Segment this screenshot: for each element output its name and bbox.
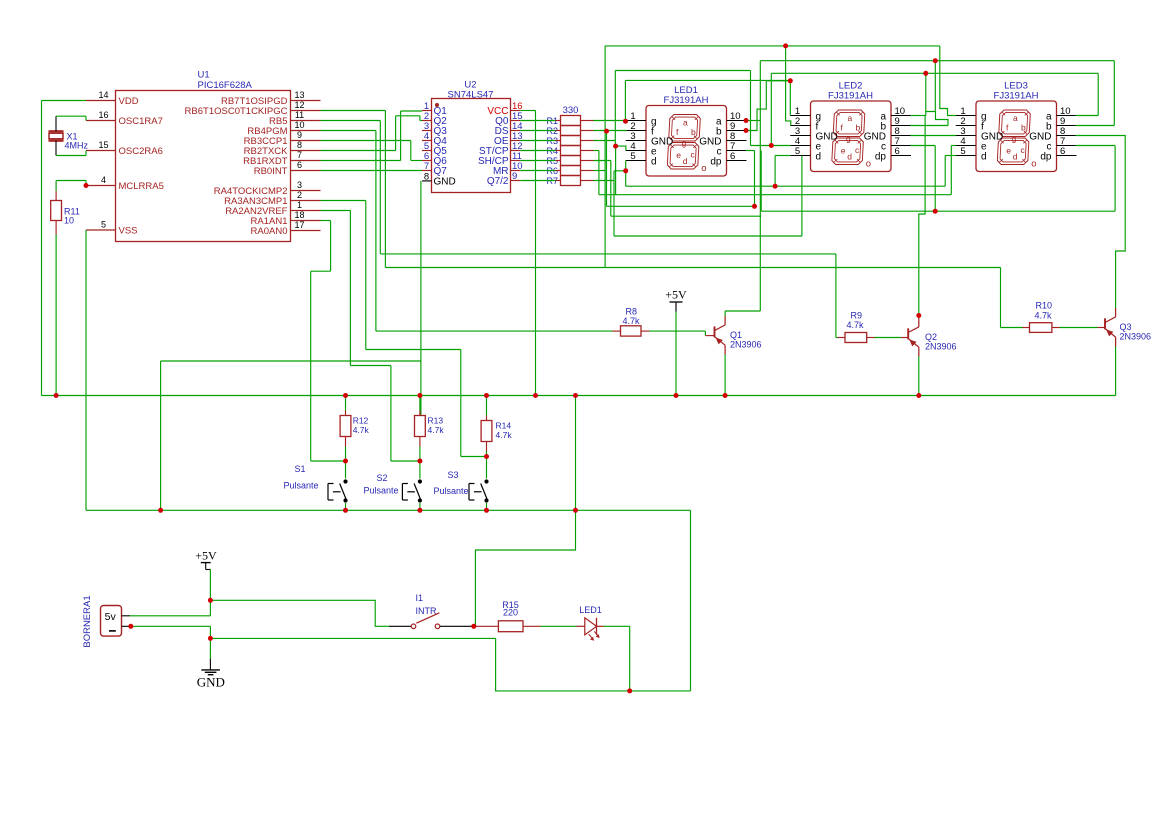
wire R7 row [594,180,615,182]
wire LED3 GND to Q3 [1076,136,1126,309]
junction [208,598,213,603]
wire R5 to h5 [594,160,611,162]
junction R12 rail [345,437,347,447]
U1 pin 17 RA0AN0 [291,230,321,232]
U2 pin 11 SH/CP [511,160,521,162]
svg-text:4.7k: 4.7k [496,430,513,440]
svg-text:6: 6 [730,151,735,162]
svg-text:11: 11 [295,110,304,120]
svg-text:g: g [846,133,851,143]
svg-text:PIC16F628A: PIC16F628A [198,80,253,91]
LED2 pin 1 g [790,115,810,117]
svg-text:R12: R12 [353,416,369,426]
junction [744,118,749,123]
U2 pin 5 Q5 [422,150,432,152]
svg-text:FJ3191AH: FJ3191AH [994,91,1039,102]
display LED1 FJ3191AH [646,106,727,177]
wire run h7 [614,235,802,237]
svg-text:5v: 5v [105,611,117,623]
IC U1 PIC16F628A [116,91,291,242]
wire S3 node to contact [486,457,488,479]
wire A right to LED3 g [940,46,956,116]
svg-text:GND: GND [197,675,225,690]
svg-text:2N3906: 2N3906 [925,341,957,351]
svg-text:Q3: Q3 [1120,322,1132,332]
svg-text:FJ3191AH: FJ3191AH [828,91,873,102]
wire D riser LED1 g [624,80,626,120]
crystal pin bottom [55,141,57,156]
ground symbol GND [209,659,211,670]
svg-text:dp: dp [1040,152,1052,163]
U1 pin 12 RB6T1OSC0T1CKIPGC [291,110,321,112]
svg-text:Q2: Q2 [925,332,937,342]
svg-text:330: 330 [563,105,579,116]
wire B riser LED2 b [934,61,936,112]
wire R1 to LED1 g [594,120,626,122]
wire R10 wires [1001,327,1023,329]
svg-text:2: 2 [297,190,302,200]
LED3 pin 10 a [1057,115,1077,117]
svg-text:4.7k: 4.7k [1035,311,1053,321]
svg-text:2N3906: 2N3906 [1120,331,1152,341]
wire minus to GND node [131,625,211,627]
wire RA3 to S3 [321,200,366,202]
wire RB0 to U2 Q7 [321,170,423,172]
svg-text:1: 1 [297,200,302,210]
svg-text:VSS: VSS [119,226,138,237]
wire RB6 to R10 column [321,110,386,112]
resistor R9 4.7k [845,333,867,343]
connector BORNERA1 [101,606,122,637]
svg-text:R9: R9 [851,311,863,321]
svg-text:RB0INT: RB0INT [254,166,288,177]
junction [533,393,538,398]
wire VCC down to rail1 [520,110,535,112]
wire run h5 [611,215,761,217]
U2 pin 7 Q7 [422,170,432,172]
svg-text:5: 5 [630,151,635,162]
junction [752,204,757,209]
LED2 pin 5 d [790,155,810,157]
U1 pin 1 RA2AN2VREF [291,210,321,212]
svg-text:g: g [1012,133,1017,143]
svg-text:4.7k: 4.7k [847,320,865,330]
LED1 pin 7 c [727,150,747,152]
junction [128,624,133,629]
wire RA2 to S2 [321,210,351,212]
junction R14 rail [486,442,488,452]
wire U2 GND to rail2 [161,360,421,362]
wire run h2 [599,194,951,196]
junction [788,78,793,83]
rail2 horizontal [86,509,691,511]
svg-text:a: a [683,117,688,127]
resistor R7 [561,176,581,186]
resistor R6 [561,166,581,176]
wire R3 to bus C [594,140,616,142]
svg-text:d: d [683,156,688,166]
U2 pin 9 Q7/2 [511,180,521,182]
wire e column down [615,146,617,195]
wire RB5 to R9 column [321,120,381,122]
svg-text:U1: U1 [198,70,210,81]
U1 pin 11 RB5 [291,120,321,122]
wire LED2 d left riser [774,156,776,187]
svg-text:6: 6 [895,146,900,157]
wire R11 to rail [55,235,57,396]
resistor R12 4.7k [340,416,351,437]
junction [343,508,348,513]
junction [417,393,422,398]
junction [933,209,938,214]
wire Q1 collector up [724,311,726,316]
svg-text:INTR: INTR [416,606,437,616]
svg-text:Q1: Q1 [730,330,742,340]
svg-text:9: 9 [512,171,517,182]
resistor R13 4.7k [415,416,426,437]
svg-text:o: o [1031,158,1036,169]
svg-text:4.7k: 4.7k [353,425,370,435]
wire bus C [615,70,750,72]
svg-text:o: o [866,158,871,169]
svg-text:3: 3 [297,180,302,190]
U1 pin 13 RB7T1OSIPGD [291,100,321,102]
svg-text:R14: R14 [496,421,512,431]
U2 pin 15 Q0 [511,120,521,122]
wire B riser Q1 collector [759,61,761,311]
junction [783,43,788,48]
wire +5V to node [209,570,211,601]
svg-text:14: 14 [98,90,108,100]
junction [744,128,749,133]
svg-text:13: 13 [294,90,304,100]
U2 pin 4 Q4 [422,140,432,142]
svg-text:a: a [1013,113,1018,123]
svg-text:15: 15 [98,140,108,150]
LED2 pin 7 c [891,145,911,147]
wire E riser staircase [926,73,948,125]
svg-text:dp: dp [875,152,887,163]
junction [604,129,609,134]
wire Q2 collector riser [919,186,925,318]
U2 pin 14 DS [511,130,521,132]
svg-text:BORNERA1: BORNERA1 [82,595,93,647]
LED3 pin 4 e [956,145,976,147]
wire RB3 to U2 Q6 [321,140,411,142]
wire R15 to LED1 diode [541,625,577,627]
junction [471,624,476,629]
junction [573,393,578,398]
svg-text:e: e [676,150,681,160]
wire h2 to LED3 e [950,146,952,195]
LED3 pin 2 f [956,125,976,127]
junction [923,71,928,76]
svg-text:b: b [691,127,696,137]
wire VDD to rail1 [42,100,87,102]
U1 pin 16 OSC1RA7 [86,120,116,122]
svg-text:dp: dp [710,157,722,168]
U1 pin 14 VDD [86,100,116,102]
wire S3 to rail2 [486,503,488,510]
svg-text:Pulsante: Pulsante [364,486,399,496]
svg-text:Pulsante: Pulsante [284,481,319,491]
svg-text:10: 10 [294,120,304,130]
wire R6 row [594,170,606,172]
U1 pin 4 MCLRRA5 [86,185,116,187]
wire E riser LED3 a [1097,73,1099,115]
svg-text:6: 6 [297,160,302,170]
wire bus E [771,72,1098,74]
svg-text:e: e [1006,145,1011,155]
resistor R10 4.7k [1030,323,1052,333]
U2 pin 3 Q3 [422,130,432,132]
switch S3 Pulsante [484,479,488,483]
svg-text:RA0AN0: RA0AN0 [251,226,288,237]
svg-text:VDD: VDD [119,96,139,107]
U1 pin 3 RA4TOCKICMP2 [291,190,321,192]
svg-text:d: d [847,152,852,162]
wire h1 to LED3 d [944,156,946,187]
wire R9 to Q2 base [836,337,838,339]
wire LED2-LED3 row125 [911,125,949,127]
svg-text:OSC2RA6: OSC2RA6 [119,146,163,157]
U1 pin 15 OSC2RA6 [86,150,116,152]
junction [613,144,618,149]
rail1 horizontal [42,395,1116,397]
junction [916,393,921,398]
svg-text:Q7/2: Q7/2 [487,176,509,187]
LED2 pin 8 GND [891,135,911,137]
resistor R15 220 [498,621,523,632]
wire run h1 [626,185,946,187]
junction [54,393,59,398]
wire B riser LED3 b [1113,61,1115,126]
junction [484,393,489,398]
crystal X1 4MHz [49,130,64,132]
wire run h4 [761,210,1115,212]
svg-text:Pulsante: Pulsante [434,486,469,496]
resistor R5 [561,156,581,166]
wire Q2 emitter to rail1 [918,357,920,396]
svg-text:220: 220 [503,608,518,618]
wire U2 GND down [420,181,422,416]
wire LED3 c riser [1114,146,1116,212]
junction [484,454,489,459]
LED2 pin 6 dp [891,155,911,157]
U2 pin 2 Q2 [422,120,432,122]
LED1 pin 3 GND [626,140,646,142]
diode LED1 [585,618,597,635]
wire A riser [604,46,606,268]
wire R2 to LED1 f and h3 [594,130,627,132]
wire column x613 down [613,171,615,236]
LED3 pin 9 b [1057,125,1077,127]
U2 pin 16 VCC [511,110,521,112]
wire OSC1 loop [56,115,86,117]
resistor R4 [561,146,581,156]
svg-text:10: 10 [64,216,74,226]
wire b jog up to D [746,81,790,131]
wire MCLR to R11 [55,181,57,192]
svg-text:SN74LS47: SN74LS47 [448,90,494,101]
U1 pin 9 RB3CCP1 [291,140,321,142]
wire RA1 to S1 [321,220,331,222]
svg-text:17: 17 [294,220,304,230]
U2 pin 8 GND [422,180,432,182]
svg-text:4: 4 [101,175,106,185]
resistor R1 [561,116,581,126]
LED2 pin 10 a [891,115,911,117]
wire run h3 [607,205,755,207]
junction [769,143,774,148]
junction [933,58,938,63]
wire bus B top [760,60,1114,62]
svg-text:8: 8 [424,171,429,182]
switch S2 Pulsante [418,479,422,483]
LED2 pin 9 b [891,125,911,127]
wire LED2 a row [911,115,926,117]
U1 pin 2 RA3AN3CMP1 [291,200,321,202]
svg-text:S2: S2 [377,473,388,483]
LED3 pin 6 dp [1057,155,1077,157]
LED1 pin 2 f [626,130,646,132]
wire LED1 d column [625,161,627,187]
LED2 pin 3 GND [790,135,810,137]
transistor Q2 2N3906 [907,328,909,339]
wire VSS down to rail2 [85,230,87,510]
wire OSC2 loop [56,155,86,157]
svg-text:7: 7 [424,161,429,172]
svg-text:5: 5 [960,146,965,157]
transistor Q1 2N3906 [714,326,716,337]
IC U2 SN74LS47 [432,99,511,193]
wire LED2 c riser [934,146,936,212]
LED1 pin 5 d [626,160,646,162]
LED1 pin 9 b [727,130,747,132]
resistor R11 10 [51,201,62,221]
wire LED1 c to h3 [746,150,755,152]
wire LED1 a jog [746,120,760,122]
svg-text:4MHz: 4MHz [65,141,89,151]
svg-text:a: a [848,113,853,123]
svg-text:8: 8 [297,140,302,150]
wire R8 to Q1 base [641,330,650,332]
wire C riser left [614,71,616,147]
svg-text:b: b [856,123,861,133]
U2 pin 13 OE [511,140,521,142]
switch S1 Pulsante [343,479,347,483]
svg-text:4.7k: 4.7k [428,425,445,435]
svg-text:GND: GND [434,176,456,187]
junction [417,459,422,464]
junction [723,393,728,398]
svg-text:16: 16 [98,110,108,120]
LED1 pin 4 e [626,150,646,152]
U2 pin 6 Q6 [422,160,432,162]
wire rail2 right to I1 [575,396,577,511]
wire 5v pin to +5V [130,615,210,617]
LED1 pin 6 dp [727,160,747,162]
svg-text:LED1: LED1 [579,605,602,615]
junction [916,313,921,318]
LED3 pin 7 c [1057,145,1077,147]
junction [417,508,422,513]
wire d jog left [614,170,626,172]
svg-text:+5V: +5V [665,288,687,302]
BORNERA1 pin minus [122,625,131,627]
U2 pin 1 Q1 [422,110,432,112]
LED3 pin 1 g [956,115,976,117]
svg-text:OSC1RA7: OSC1RA7 [119,116,163,127]
svg-text:+5V: +5V [195,549,217,563]
LED2 pin 4 e [790,145,810,147]
LED1 pin 10 a [727,120,747,122]
svg-text:12: 12 [294,100,304,110]
junction [158,508,163,513]
transistor Q3 2N3906 [1104,318,1106,329]
wire Q1 emitter to rail1 [724,355,726,396]
junction [208,636,213,641]
wire S2 node to contact [419,461,421,479]
crystal pin top [55,116,57,131]
U1 pin 18 RA1AN1 [291,220,321,222]
wire LED2-LED3 row135 [911,135,957,137]
wire RB4 to R8 [321,130,376,132]
wire C riser right to LED2 e [750,71,752,146]
wire h7 riser [801,156,803,237]
svg-text:I1: I1 [416,593,424,603]
svg-text:18: 18 [294,210,304,220]
U2 pin 12 ST/CP [511,150,521,152]
wire e jog to LED1 pin4 [616,146,626,150]
svg-text:4.7k: 4.7k [623,316,641,326]
U1 pin 8 RB2TXCK [291,150,321,152]
junction [627,688,632,693]
svg-text:9: 9 [297,130,302,140]
svg-text:2N3906: 2N3906 [730,340,762,350]
wire A riser to LED2 f [786,46,791,126]
junction [623,119,628,124]
svg-text:R8: R8 [626,307,638,317]
svg-text:R10: R10 [1036,301,1053,311]
junction [343,393,348,398]
LED3 pin 3 GND [956,135,976,137]
svg-text:Q7: Q7 [434,166,448,177]
svg-text:e: e [841,145,846,155]
junction [573,508,578,513]
wire gnd stem [209,638,211,659]
svg-text:MCLRRA5: MCLRRA5 [119,181,164,192]
wire column x925 upper [924,116,926,187]
wire D riser LED2 g [789,80,791,115]
svg-text:b: b [1021,123,1026,133]
svg-text:d: d [816,152,822,163]
U1 pin 10 RB4PGM [291,130,321,132]
junction [343,459,348,464]
svg-text:FJ3191AH: FJ3191AH [664,95,709,106]
resistor R8 4.7k [621,326,642,336]
wire rail2 end down to bottom [690,510,692,691]
resistor R14 4.7k [481,421,492,442]
wire S1 node to contact [345,461,347,479]
U1 pin 5 VSS [86,229,116,231]
resistor R2 [561,126,581,136]
wire S2 to rail2 [419,503,421,510]
svg-text:R13: R13 [428,416,444,426]
junction [84,183,89,188]
LED2 pin 2 f [790,125,810,127]
U2 pin1 marker [435,103,439,107]
